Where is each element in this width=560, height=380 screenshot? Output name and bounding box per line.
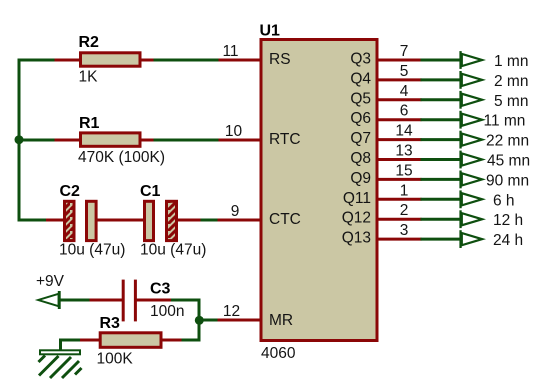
pin 4 stub of U1 bbox=[377, 98, 422, 101]
svg-text:2: 2 bbox=[400, 202, 409, 219]
svg-text:15: 15 bbox=[395, 162, 412, 179]
svg-text:Q6: Q6 bbox=[350, 110, 371, 127]
svg-text:90 mn: 90 mn bbox=[486, 172, 529, 189]
svg-text:Q13: Q13 bbox=[342, 230, 371, 247]
resistor R1 right pin bbox=[140, 139, 155, 142]
svg-text:22 mn: 22 mn bbox=[486, 133, 529, 150]
svg-text:Q11: Q11 bbox=[343, 190, 371, 207]
svg-text:2 mn: 2 mn bbox=[494, 73, 528, 90]
capacitor C1 right pin bbox=[177, 219, 202, 222]
node output arrow 2 mn bbox=[459, 71, 486, 89]
op-amp U1 4060 body bbox=[261, 40, 377, 341]
resistor R1 left pin bbox=[55, 139, 81, 142]
pin 9 stub of U1 bbox=[218, 219, 262, 222]
wire rail to C2 bbox=[18, 219, 48, 222]
capacitor C1 plain plate bbox=[145, 201, 154, 240]
svg-text:6: 6 bbox=[400, 103, 409, 120]
wire C2 to C1 bbox=[97, 219, 145, 222]
pin 11 stub of U1 bbox=[219, 59, 262, 62]
wire rail to R2 bbox=[18, 59, 56, 62]
node output arrow 11 mn bbox=[459, 111, 486, 129]
svg-text:1 mn: 1 mn bbox=[494, 53, 528, 70]
capacitor C3 right pin bbox=[137, 299, 173, 302]
pin 6 stub of U1 bbox=[377, 118, 422, 121]
svg-text:3: 3 bbox=[400, 222, 409, 239]
svg-text:C1: C1 bbox=[140, 183, 161, 200]
svg-text:MR: MR bbox=[269, 312, 293, 329]
pin 10 stub of U1 bbox=[219, 139, 262, 142]
svg-text:Q4: Q4 bbox=[350, 70, 371, 87]
wire left vertical rail bbox=[18, 59, 21, 222]
ground bbox=[39, 350, 82, 378]
wire pin 7 to output arrow bbox=[421, 59, 462, 62]
wire R1 to pin 10 bbox=[154, 139, 220, 142]
pin 1 stub of U1 bbox=[377, 198, 422, 201]
svg-text:RTC: RTC bbox=[269, 131, 301, 148]
svg-text:11: 11 bbox=[222, 43, 238, 60]
svg-text:C2: C2 bbox=[60, 183, 81, 200]
svg-text:1: 1 bbox=[400, 182, 409, 199]
capacitor C3 left plate bbox=[122, 280, 125, 322]
node output arrow 90 mn bbox=[459, 171, 486, 189]
svg-text:7: 7 bbox=[400, 43, 409, 60]
svg-text:R3: R3 bbox=[100, 315, 121, 332]
capacitor C3 left pin bbox=[90, 299, 123, 302]
resistor R2 right pin bbox=[140, 59, 155, 62]
svg-text:Q8: Q8 bbox=[350, 150, 371, 167]
svg-text:10u (47u): 10u (47u) bbox=[140, 242, 206, 259]
wire C1 to pin 9 bbox=[201, 219, 219, 222]
svg-text:10u (47u): 10u (47u) bbox=[59, 242, 125, 259]
wire node to pin 12 bbox=[199, 319, 219, 322]
capacitor C3 right plate bbox=[134, 280, 137, 322]
svg-text:4060: 4060 bbox=[261, 345, 296, 362]
svg-text:Q7: Q7 bbox=[350, 130, 371, 147]
svg-text:10: 10 bbox=[225, 123, 243, 140]
svg-text:9: 9 bbox=[231, 203, 240, 220]
svg-text:U1: U1 bbox=[260, 23, 281, 40]
wire pin 3 to output arrow bbox=[421, 238, 462, 241]
svg-text:+9V: +9V bbox=[36, 273, 65, 290]
node junction on rail at RTC row bbox=[15, 135, 24, 144]
wire pin 15 to output arrow bbox=[421, 178, 462, 181]
node junction MR bbox=[195, 316, 204, 325]
node output arrow 5 mn bbox=[459, 91, 486, 109]
svg-text:CTC: CTC bbox=[269, 211, 301, 228]
wire pin 5 to output arrow bbox=[421, 78, 462, 81]
svg-text:13: 13 bbox=[395, 143, 412, 160]
svg-text:RS: RS bbox=[269, 51, 291, 68]
wire pin 6 to output arrow bbox=[421, 118, 462, 121]
svg-text:6 h: 6 h bbox=[493, 192, 515, 209]
svg-text:R1: R1 bbox=[79, 115, 100, 132]
svg-text:24 h: 24 h bbox=[493, 232, 523, 249]
svg-text:11 mn: 11 mn bbox=[484, 113, 526, 130]
wire pin 14 to output arrow bbox=[421, 138, 462, 141]
node output arrow 45 mn bbox=[459, 151, 486, 169]
wire pin 4 to output arrow bbox=[421, 98, 462, 101]
wire R2 to pin 11 bbox=[154, 59, 220, 62]
wire +9V to C3 bbox=[60, 299, 91, 302]
wire pin 2 to output arrow bbox=[421, 218, 462, 221]
wire C3 to node bbox=[171, 300, 199, 340]
svg-text:Q3: Q3 bbox=[350, 51, 371, 68]
svg-text:5: 5 bbox=[400, 63, 409, 80]
svg-text:470K (100K): 470K (100K) bbox=[78, 149, 165, 166]
wire rail to R1 bbox=[18, 139, 56, 142]
svg-text:5 mn: 5 mn bbox=[494, 93, 528, 110]
svg-text:R2: R2 bbox=[79, 34, 100, 51]
node output arrow 12 h bbox=[459, 210, 486, 228]
pin 2 stub of U1 bbox=[377, 218, 422, 221]
capacitor C1 hatched plate bbox=[167, 201, 177, 240]
power arrow +9V bbox=[35, 291, 61, 309]
svg-text:100n: 100n bbox=[150, 303, 184, 320]
pin 5 stub of U1 bbox=[377, 78, 422, 81]
svg-text:Q12: Q12 bbox=[342, 210, 371, 227]
pin 7 stub of U1 bbox=[377, 59, 422, 62]
svg-text:4: 4 bbox=[400, 83, 409, 100]
node output arrow 6 h bbox=[459, 190, 486, 208]
svg-text:Q5: Q5 bbox=[350, 90, 371, 107]
capacitor C2 left pin bbox=[46, 219, 64, 222]
resistor R3 right pin bbox=[161, 339, 182, 342]
resistor R3 left pin bbox=[80, 339, 100, 342]
resistor R2 left pin bbox=[55, 59, 81, 62]
node output arrow 22 mn bbox=[459, 131, 486, 149]
svg-text:12: 12 bbox=[223, 303, 240, 320]
svg-text:C3: C3 bbox=[150, 281, 171, 298]
wire pin 13 to output arrow bbox=[421, 158, 462, 161]
svg-text:45 mn: 45 mn bbox=[487, 153, 530, 170]
pin 12 stub of U1 bbox=[218, 319, 262, 322]
svg-text:14: 14 bbox=[395, 123, 413, 140]
node output arrow 24 h bbox=[459, 230, 486, 248]
wire pin 1 to output arrow bbox=[421, 198, 462, 201]
svg-text:100K: 100K bbox=[97, 351, 134, 368]
pin 3 stub of U1 bbox=[377, 238, 422, 241]
pin 15 stub of U1 bbox=[377, 178, 422, 181]
capacitor C2 plain plate bbox=[87, 201, 97, 240]
pin 14 stub of U1 bbox=[377, 138, 422, 141]
node output arrow 1 mn bbox=[459, 51, 486, 69]
resistor R1 bbox=[81, 133, 141, 146]
svg-text:12 h: 12 h bbox=[493, 212, 523, 229]
capacitor C2 hatched plate bbox=[65, 201, 75, 240]
pin 13 stub of U1 bbox=[377, 158, 422, 161]
resistor R2 bbox=[81, 53, 141, 66]
resistor R3 bbox=[100, 333, 161, 348]
svg-text:Q9: Q9 bbox=[350, 170, 371, 187]
wire ground to R3 bbox=[61, 340, 82, 351]
svg-text:1K: 1K bbox=[79, 69, 99, 86]
